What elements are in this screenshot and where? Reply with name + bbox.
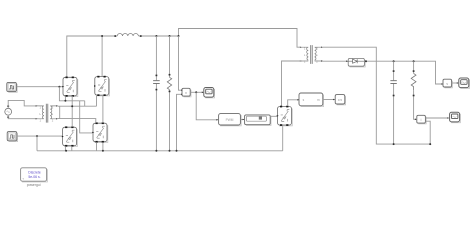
transformer T1 port arrows	[36, 105, 58, 119]
wire P1 to Q1 gate	[16, 86, 62, 88]
resistor R1 branch wire	[169, 36, 171, 151]
transformer T2	[301, 45, 323, 64]
MOSFET Q5	[277, 106, 293, 126]
powergui block	[21, 168, 48, 182]
wire VM1 signal down to PWM block	[196, 92, 217, 120]
resistor R1 ports	[169, 74, 171, 92]
junction P2 branch	[36, 135, 38, 137]
diode D2	[348, 58, 365, 67]
wire U3 to display block	[323, 99, 334, 101]
junction gate routing	[64, 100, 66, 102]
measurement subsystem block U3	[299, 93, 324, 107]
transformer T2 winding labels	[304, 47, 318, 64]
wire T2 secondary top wrap to output return rail	[323, 47, 431, 144]
wire P2 to Q3 gate	[17, 135, 62, 137]
wire VM1 output to scope S1	[190, 91, 203, 93]
svg-text:PWM: PWM	[226, 118, 234, 122]
wire gate routing down	[59, 87, 92, 133]
svg-text:5e-06 s.: 5e-06 s.	[28, 175, 40, 179]
wire bridge midpoint B to Q4 drain	[58, 119, 96, 123]
wire top DC bus right segment after inductor	[141, 35, 179, 37]
junction P1 gate branch	[58, 86, 60, 88]
scope S3	[450, 112, 461, 122]
AC source V1	[5, 105, 12, 118]
junction dots on top DC bus	[101, 35, 179, 37]
wire T2 secondary bottom to diode	[323, 60, 348, 62]
MOSFET Q3	[62, 126, 78, 146]
wire Q5 m output to RMS block	[288, 100, 299, 106]
capacitor C2 plates	[390, 81, 396, 84]
MOSFET Q1	[62, 77, 78, 97]
wire bottom rail up to Q5 source	[282, 125, 284, 151]
display block D1	[335, 95, 345, 105]
wire Q2b drain drop	[101, 36, 103, 76]
wire Q4 source drops	[97, 142, 103, 151]
capacitor C1 ports	[156, 75, 158, 91]
capacitor C2 ports	[393, 70, 395, 96]
wire top bus upper jog to transformer T2	[179, 29, 300, 48]
junction midpoint A riser	[71, 105, 73, 107]
wire v+ drop to voltage measurement VM1	[179, 36, 182, 90]
wire gate feed to MOSFET Q5	[270, 115, 276, 117]
voltage measurement VM2	[443, 79, 452, 88]
svg-text:v: v	[446, 82, 448, 86]
wire v- from VM1 down to bottom bus	[177, 94, 182, 151]
transformer T1 winding labels	[40, 105, 54, 122]
bottom bus rail	[37, 150, 283, 152]
wire Q3 source drops	[65, 146, 71, 151]
wire source top to transformer T1	[8, 100, 36, 108]
MOSFET Q2	[94, 76, 110, 96]
wire CM1 return to rail	[425, 121, 430, 144]
wire CM1 signal to scope S3	[425, 117, 448, 119]
resistor R2 zigzag	[411, 73, 416, 90]
transformer T2 port arrows	[300, 47, 323, 62]
pulse generator P2	[7, 132, 17, 142]
resistor R2 branch	[414, 61, 416, 119]
PWM generator block U2	[245, 115, 271, 126]
junction dots output bus	[365, 60, 415, 62]
voltage measurement VM1	[181, 88, 191, 97]
wire diode output bus	[364, 61, 442, 84]
wire P2 branch down to bottom rail	[36, 136, 38, 151]
inductor L1 terminal ports	[114, 35, 141, 37]
MOSFET Q4	[92, 122, 108, 142]
wire source bottom to transformer T1	[8, 115, 36, 119]
scope S2	[459, 78, 470, 88]
capacitor C2 branch	[393, 61, 395, 144]
resistor R2 ports	[413, 70, 415, 96]
PWM controller block U1	[219, 114, 242, 126]
wire VM2 to scope S2	[452, 82, 458, 84]
svg-text:powergui: powergui	[27, 183, 41, 187]
wire T2 primary return to Q5 drain	[282, 61, 301, 106]
wire bridge midpoint A	[58, 96, 97, 127]
svg-text:0.5: 0.5	[338, 98, 343, 102]
transformer T1	[36, 104, 58, 123]
scope S1	[204, 88, 215, 98]
junction dots return rail	[393, 143, 432, 145]
junction dots on bottom rail	[65, 150, 177, 152]
wire top DC bus left segment	[67, 36, 116, 77]
capacitor C1 branch wire	[155, 36, 157, 151]
wire PWM to comparator block	[240, 119, 243, 121]
pulse generator P1	[7, 82, 17, 92]
current measurement CM1	[417, 115, 426, 124]
svg-text:v: v	[185, 91, 187, 95]
resistor R1 zigzag	[167, 77, 171, 89]
capacitor C1 plates	[153, 81, 160, 84]
wire Q2 source to Q4 drain right	[102, 96, 104, 123]
junction dot VM1 output	[195, 91, 197, 93]
svg-text:m: m	[317, 98, 320, 102]
inductor L1	[115, 34, 140, 37]
